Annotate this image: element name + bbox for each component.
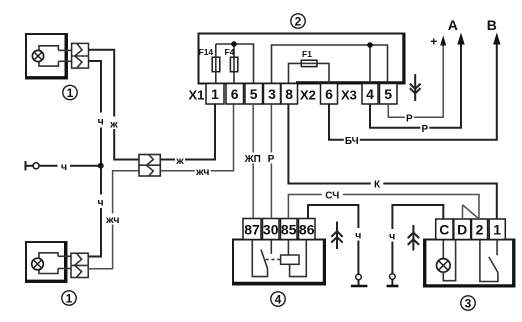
thick bottom edge: [232, 282, 326, 285]
internal contact channel from pin 87: [252, 240, 267, 277]
svg-text:+: +: [430, 35, 437, 49]
ground symbol (double chevron up) beside switch: [412, 225, 414, 251]
inline connector (2-pin, unnumbered): [139, 155, 160, 177]
internal lead from pin 1 (fixed contact): [496, 240, 498, 255]
pin 87: [243, 219, 261, 240]
internal lead bulb to pin D: [443, 240, 455, 281]
wire СЧ: relay pin 85 up and right to switch pin 2: [288, 195, 479, 220]
svg-text:ЖП: ЖП: [244, 154, 261, 165]
connector split line: [72, 55, 89, 57]
ground stem and bar (relay side): [358, 280, 360, 286]
svg-text:К: К: [374, 180, 381, 191]
thick right edge: [323, 240, 325, 285]
svg-text:А: А: [448, 17, 458, 33]
internal wire: pin 6 through F4 to bus: [233, 44, 235, 84]
connector split line: [71, 264, 88, 266]
internal wire: pin 8 through F1 to pin X2.6: [289, 63, 330, 83]
switch blade (movable contact): [261, 250, 268, 269]
thick bottom edge: [296, 81, 405, 84]
internal wire: pin 1 through F14 to bus: [215, 44, 217, 84]
pin 85: [281, 219, 298, 240]
svg-text:8: 8: [285, 86, 293, 102]
thick right edge of housing: [65, 34, 68, 79]
dashed actuator link to coil: [266, 259, 281, 261]
unit label circled 2: [291, 14, 305, 28]
unit label circled 4: [271, 292, 285, 306]
unit label circled 3: [461, 296, 475, 310]
junction dot above pin X3.4: [367, 42, 373, 48]
wire Р: pin X3.5 down, right and up to terminal +: [388, 45, 443, 117]
wire жч: inline connector to bottom lamp lower pin: [88, 171, 139, 269]
pin X1.5: [245, 84, 263, 105]
mounting block / fuse box body (unit 2): [199, 34, 405, 84]
bracket contact tab upper: [58, 49, 71, 51]
pin D: [454, 219, 471, 240]
diagonal jumper D to pin 2 riser: [463, 205, 480, 219]
wire Р: pin X3.4 down, right and up to terminal A: [370, 43, 461, 128]
internal lead pin 86 to coil bottom: [290, 240, 307, 277]
ground symbol (double chevron up) beside relay: [336, 222, 338, 250]
svg-text:F4: F4: [225, 47, 235, 57]
wire БЧ: pin X2.6 down, right and up to terminal B: [329, 43, 497, 140]
svg-text:X3: X3: [341, 87, 357, 102]
wire К: pin X1.8 right to switch pin 1: [288, 104, 496, 219]
bulb symbol (circle with X): [32, 258, 44, 270]
thick bottom edge: [423, 284, 515, 287]
lamp housing box (side-marker lamp 1, bottom): [26, 242, 67, 282]
internal bus rail 2 (pin 3 to pins X3.4/X3.5): [272, 45, 388, 84]
switch blade (movable contact): [489, 257, 498, 273]
pin 2: [472, 219, 488, 240]
connector pins housing (2-pin): [71, 253, 88, 277]
internal bus rail (F14/F4 to pin 5): [216, 44, 254, 84]
internal wire: bus 2 dot down to pin X3.4: [369, 45, 371, 84]
pin X3.5: [380, 84, 398, 105]
pin X2.6: [321, 84, 338, 105]
pin D stub: [462, 205, 464, 219]
wire ж: inline connector to fuse box pin X1.1: [160, 104, 215, 160]
wire ч: junction down to bottom lamp upper pin: [88, 166, 101, 257]
junction node (black): [98, 163, 104, 169]
wire Р: pin X1.3 down to relay pin 30: [270, 104, 272, 219]
svg-text:2: 2: [295, 15, 302, 29]
svg-text:6: 6: [231, 86, 239, 102]
wire ЖП: pin X1.5 down to relay pin 87: [252, 104, 254, 219]
pin X1.8: [281, 84, 298, 105]
internal contact channel from pin 2: [480, 240, 498, 282]
wire: relay pin 86 to body ground contact: [308, 205, 358, 274]
svg-text:1: 1: [66, 292, 73, 306]
ground stem and bar (switch side): [391, 279, 393, 285]
wire ч: terminal to junction: [39, 165, 101, 167]
terminal arrow +: [440, 36, 446, 46]
relay coil: [281, 255, 299, 264]
svg-text:85: 85: [281, 222, 297, 238]
pin 30: [263, 219, 280, 240]
connector pin chevrons: [75, 253, 82, 277]
junction dot above F4: [231, 41, 237, 47]
thick bottom edge of housing: [26, 280, 67, 283]
unit label circled 1 (bottom): [62, 291, 76, 305]
relay body (unit 4): [233, 240, 325, 285]
svg-text:СЧ: СЧ: [325, 191, 339, 202]
svg-text:3: 3: [465, 297, 472, 311]
wire: switch pin C to body ground contact: [392, 205, 443, 274]
svg-text:X2: X2: [300, 87, 316, 102]
left body terminal (bar + open contact): [25, 161, 27, 171]
svg-text:4: 4: [275, 293, 282, 307]
svg-text:Р: Р: [421, 124, 428, 135]
pin X3.4: [362, 84, 378, 105]
open contact circle (switch ground): [390, 274, 396, 280]
wire ч: top lamp lower pin down to junction: [89, 61, 102, 166]
svg-text:жч: жч: [195, 166, 209, 178]
wire ж: top lamp upper pin to inline connector (vertical run): [89, 50, 140, 160]
bulb holder bracket: [39, 253, 58, 274]
svg-text:86: 86: [299, 222, 315, 238]
internal lead pin C to pilot bulb: [442, 240, 444, 259]
pilot bulb symbol (circle with X): [437, 259, 451, 273]
svg-text:30: 30: [263, 222, 279, 238]
bracket contact tab upper: [58, 255, 71, 257]
svg-text:F1: F1: [302, 49, 312, 59]
svg-text:5: 5: [384, 86, 392, 102]
svg-text:ж: ж: [109, 119, 118, 131]
svg-text:ч: ч: [355, 229, 361, 241]
bracket contact tab lower: [58, 268, 71, 270]
terminal arrow B: [493, 33, 500, 45]
thick right edge: [402, 34, 405, 84]
svg-text:3: 3: [268, 86, 276, 102]
connector pin chevrons: [75, 44, 82, 68]
svg-text:87: 87: [244, 222, 260, 238]
svg-text:жч: жч: [105, 214, 119, 226]
bulb symbol (circle with X): [32, 50, 43, 61]
internal lead pin 85 to coil top: [287, 240, 289, 255]
fuse F14 body: [212, 57, 220, 71]
fuse F1 body: [301, 60, 317, 66]
switch body (unit 3, hazard switch): [424, 240, 515, 287]
thick bottom edge of housing: [26, 76, 67, 79]
bulb holder bracket: [39, 46, 58, 66]
bracket contact tab lower: [58, 60, 71, 62]
pin X1.1: [206, 84, 224, 105]
open contact circle (relay ground): [356, 274, 362, 280]
svg-text:1: 1: [493, 222, 501, 238]
inline connector chevrons: [146, 155, 153, 176]
pin 1: [489, 219, 505, 240]
pin X1.6: [226, 84, 244, 105]
svg-text:4: 4: [366, 86, 374, 102]
wire жч: inline connector to fuse box pin X1.6: [160, 104, 233, 171]
thick right edge: [512, 240, 514, 288]
svg-text:D: D: [457, 222, 467, 238]
fuse F4 body: [230, 57, 237, 71]
svg-text:C: C: [439, 222, 449, 238]
svg-text:ч: ч: [98, 116, 104, 128]
svg-text:ч: ч: [389, 230, 395, 242]
terminal arrow A: [457, 33, 464, 45]
svg-text:Р: Р: [268, 154, 275, 165]
svg-text:В: В: [487, 17, 497, 33]
pin X1.3: [264, 84, 281, 105]
pin C: [436, 219, 453, 240]
svg-text:ж: ж: [175, 155, 184, 167]
svg-text:Р: Р: [406, 114, 413, 125]
svg-text:1: 1: [67, 86, 74, 100]
svg-text:5: 5: [250, 86, 258, 102]
svg-text:ч: ч: [97, 197, 103, 209]
svg-text:2: 2: [476, 222, 484, 238]
unit label circled 1 (top): [63, 85, 77, 99]
svg-text:ч: ч: [61, 161, 67, 173]
thick right edge of housing: [64, 242, 67, 282]
ground symbol (double chevron down) beside fuse box: [414, 74, 416, 101]
svg-text:F14: F14: [199, 47, 214, 57]
connector pins housing (2-pin): [72, 43, 89, 68]
svg-text:БЧ: БЧ: [345, 136, 359, 147]
lamp housing box (side-marker lamp 1, top): [26, 34, 67, 79]
svg-text:1: 1: [211, 86, 219, 102]
internal lead from pin 30 (fixed contact): [270, 240, 272, 254]
svg-text:X1: X1: [189, 87, 205, 102]
pin 86: [299, 219, 316, 240]
thick left edge: [424, 240, 426, 288]
svg-text:6: 6: [325, 86, 333, 102]
